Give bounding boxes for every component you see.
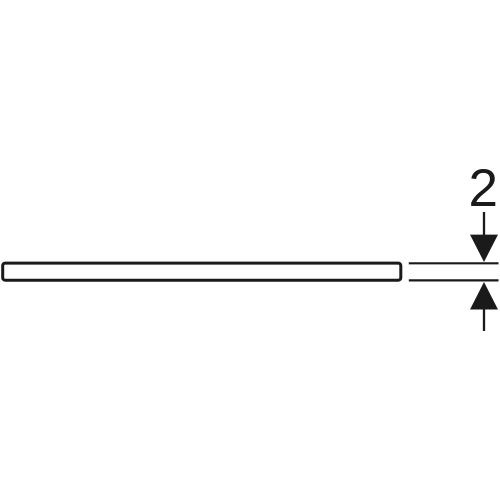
svg-text:2: 2 bbox=[469, 159, 498, 218]
